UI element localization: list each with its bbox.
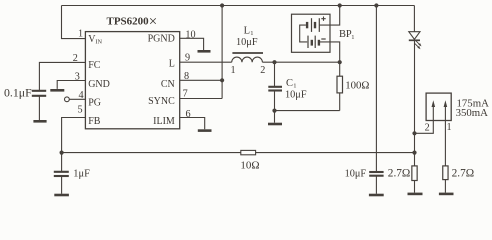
ground C1	[268, 123, 282, 126]
wire pin4 PG	[69, 98, 85, 100]
wire inductor to battery node	[262, 61, 339, 63]
battery plus sign	[321, 17, 325, 21]
junction L-C1	[272, 60, 276, 64]
svg-text:350mA: 350mA	[456, 107, 489, 119]
ground 0.1uF	[33, 120, 46, 123]
resistor 100ohm	[339, 62, 341, 76]
svg-text:SYNC: SYNC	[148, 96, 175, 107]
resistor 10ohm	[241, 150, 256, 154]
wire 0.1uF to ground	[38, 96, 40, 120]
svg-text:7: 7	[183, 88, 188, 99]
battery BP1 bottom cell bars	[307, 36, 309, 48]
svg-text:TPS6200×: TPS6200×	[107, 14, 158, 30]
wire pin2 FC	[39, 62, 85, 90]
wire selector pin2 to LED node	[415, 121, 434, 134]
svg-text:1: 1	[78, 29, 83, 40]
inductor L1	[232, 57, 263, 62]
wire pin5 FB down	[62, 118, 86, 153]
wire pin7 SYNC	[180, 98, 222, 100]
wire SYNC/CN vertical to rail	[221, 6, 223, 99]
svg-text:IN: IN	[95, 38, 102, 45]
capacitor 0.1uF plates	[32, 90, 46, 92]
svg-text:1: 1	[446, 122, 451, 133]
LED D1 emission arrows	[415, 41, 422, 49]
junction selector pin2	[412, 131, 416, 135]
battery BP1 box	[292, 14, 331, 52]
junction FB node	[60, 151, 64, 155]
svg-text:10μF: 10μF	[285, 89, 307, 100]
capacitor 1uF plates	[61, 153, 63, 171]
terminal circle PG	[65, 97, 70, 102]
svg-text:5: 5	[77, 105, 82, 116]
ground pin10	[198, 50, 211, 53]
svg-text:8: 8	[184, 71, 189, 82]
wire 1uF to ground	[61, 176, 63, 194]
wire 10uF to ground	[375, 176, 377, 194]
wire selector pin1 down	[444, 121, 446, 166]
svg-text:2: 2	[260, 65, 265, 76]
svg-text:10: 10	[185, 30, 195, 41]
LED D1 triangle	[409, 32, 420, 40]
ground 1uF	[54, 194, 69, 197]
wire input cap vertical from rail	[375, 6, 377, 172]
svg-text:0.1μF: 0.1μF	[4, 85, 32, 99]
svg-text:10Ω: 10Ω	[240, 159, 259, 171]
resistor 2.7ohm left	[412, 166, 417, 181]
svg-text:9: 9	[185, 53, 190, 64]
svg-text:GND: GND	[88, 79, 110, 90]
svg-text:1: 1	[351, 34, 354, 41]
svg-text:CN: CN	[161, 79, 175, 90]
svg-text:10μF: 10μF	[236, 37, 258, 48]
svg-text:FB: FB	[88, 116, 101, 127]
wire C1 bottom	[274, 91, 276, 123]
svg-text:L: L	[244, 25, 250, 36]
svg-text:6: 6	[185, 109, 190, 120]
selector arrow pin1	[444, 107, 446, 121]
svg-text:2: 2	[425, 123, 430, 134]
inductor L1 core bar	[232, 52, 263, 54]
svg-text:10μF: 10μF	[345, 168, 367, 179]
wire pin1 to rail	[62, 6, 86, 39]
junction rail-battery	[338, 3, 342, 7]
battery minus sign	[321, 38, 325, 40]
svg-text:2.7Ω: 2.7Ω	[452, 167, 475, 179]
junction rail-SYNC	[220, 3, 224, 7]
wire pin6 ILIM	[180, 118, 205, 130]
svg-text:PG: PG	[88, 97, 101, 108]
wire VIN top rail	[62, 5, 415, 7]
junction CN	[220, 78, 224, 82]
ground 10uF	[369, 194, 384, 197]
svg-text:BP: BP	[339, 29, 352, 40]
wire LED branch from rail	[413, 6, 415, 32]
svg-text:FC: FC	[88, 60, 101, 71]
wire battery plus lead	[319, 6, 339, 26]
junction rail-inputcap	[374, 3, 378, 7]
junction output node	[412, 151, 416, 155]
wire 10ohm to LED node	[256, 152, 415, 154]
ground 2.7ohm left	[408, 193, 423, 196]
battery BP1 top cell bars	[306, 22, 308, 28]
svg-text:ILIM: ILIM	[153, 116, 175, 127]
svg-text:1: 1	[230, 65, 235, 76]
svg-text:L: L	[169, 58, 175, 69]
svg-text:4: 4	[78, 90, 83, 101]
svg-text:3: 3	[75, 71, 80, 82]
wire pin9 L	[180, 61, 232, 63]
ground pin3	[50, 89, 64, 92]
battery BP1 series bracket	[300, 25, 308, 42]
selector box	[426, 93, 451, 120]
svg-text:C: C	[286, 78, 293, 89]
ground 2.7ohm right	[439, 193, 454, 196]
LED D1 cathode bar	[409, 39, 420, 41]
capacitor 10uF input plates	[369, 171, 383, 173]
svg-text:1μF: 1μF	[73, 168, 90, 179]
svg-text:PGND: PGND	[148, 33, 175, 44]
wire pin10 PGND	[180, 38, 204, 50]
capacitor C1	[274, 62, 276, 86]
wire C1 node to 100ohm bottom	[275, 110, 340, 112]
junction L-battery	[338, 60, 342, 64]
wire battery minus lead	[319, 42, 340, 62]
wire pin3 GND	[57, 81, 85, 89]
junction C1 bottom	[272, 109, 276, 113]
ground pin6	[198, 129, 212, 132]
IC U1 box TPS6200x	[85, 32, 179, 129]
wire LED vertical down	[414, 40, 416, 166]
svg-text:2.7Ω: 2.7Ω	[388, 167, 411, 179]
selector arrow pin2	[432, 107, 434, 121]
resistor 2.7ohm right	[443, 166, 448, 180]
svg-text:100Ω: 100Ω	[345, 80, 369, 92]
svg-text:2: 2	[73, 53, 78, 64]
wire FB node to 10ohm	[62, 152, 241, 154]
wire pin8 CN	[180, 79, 222, 81]
